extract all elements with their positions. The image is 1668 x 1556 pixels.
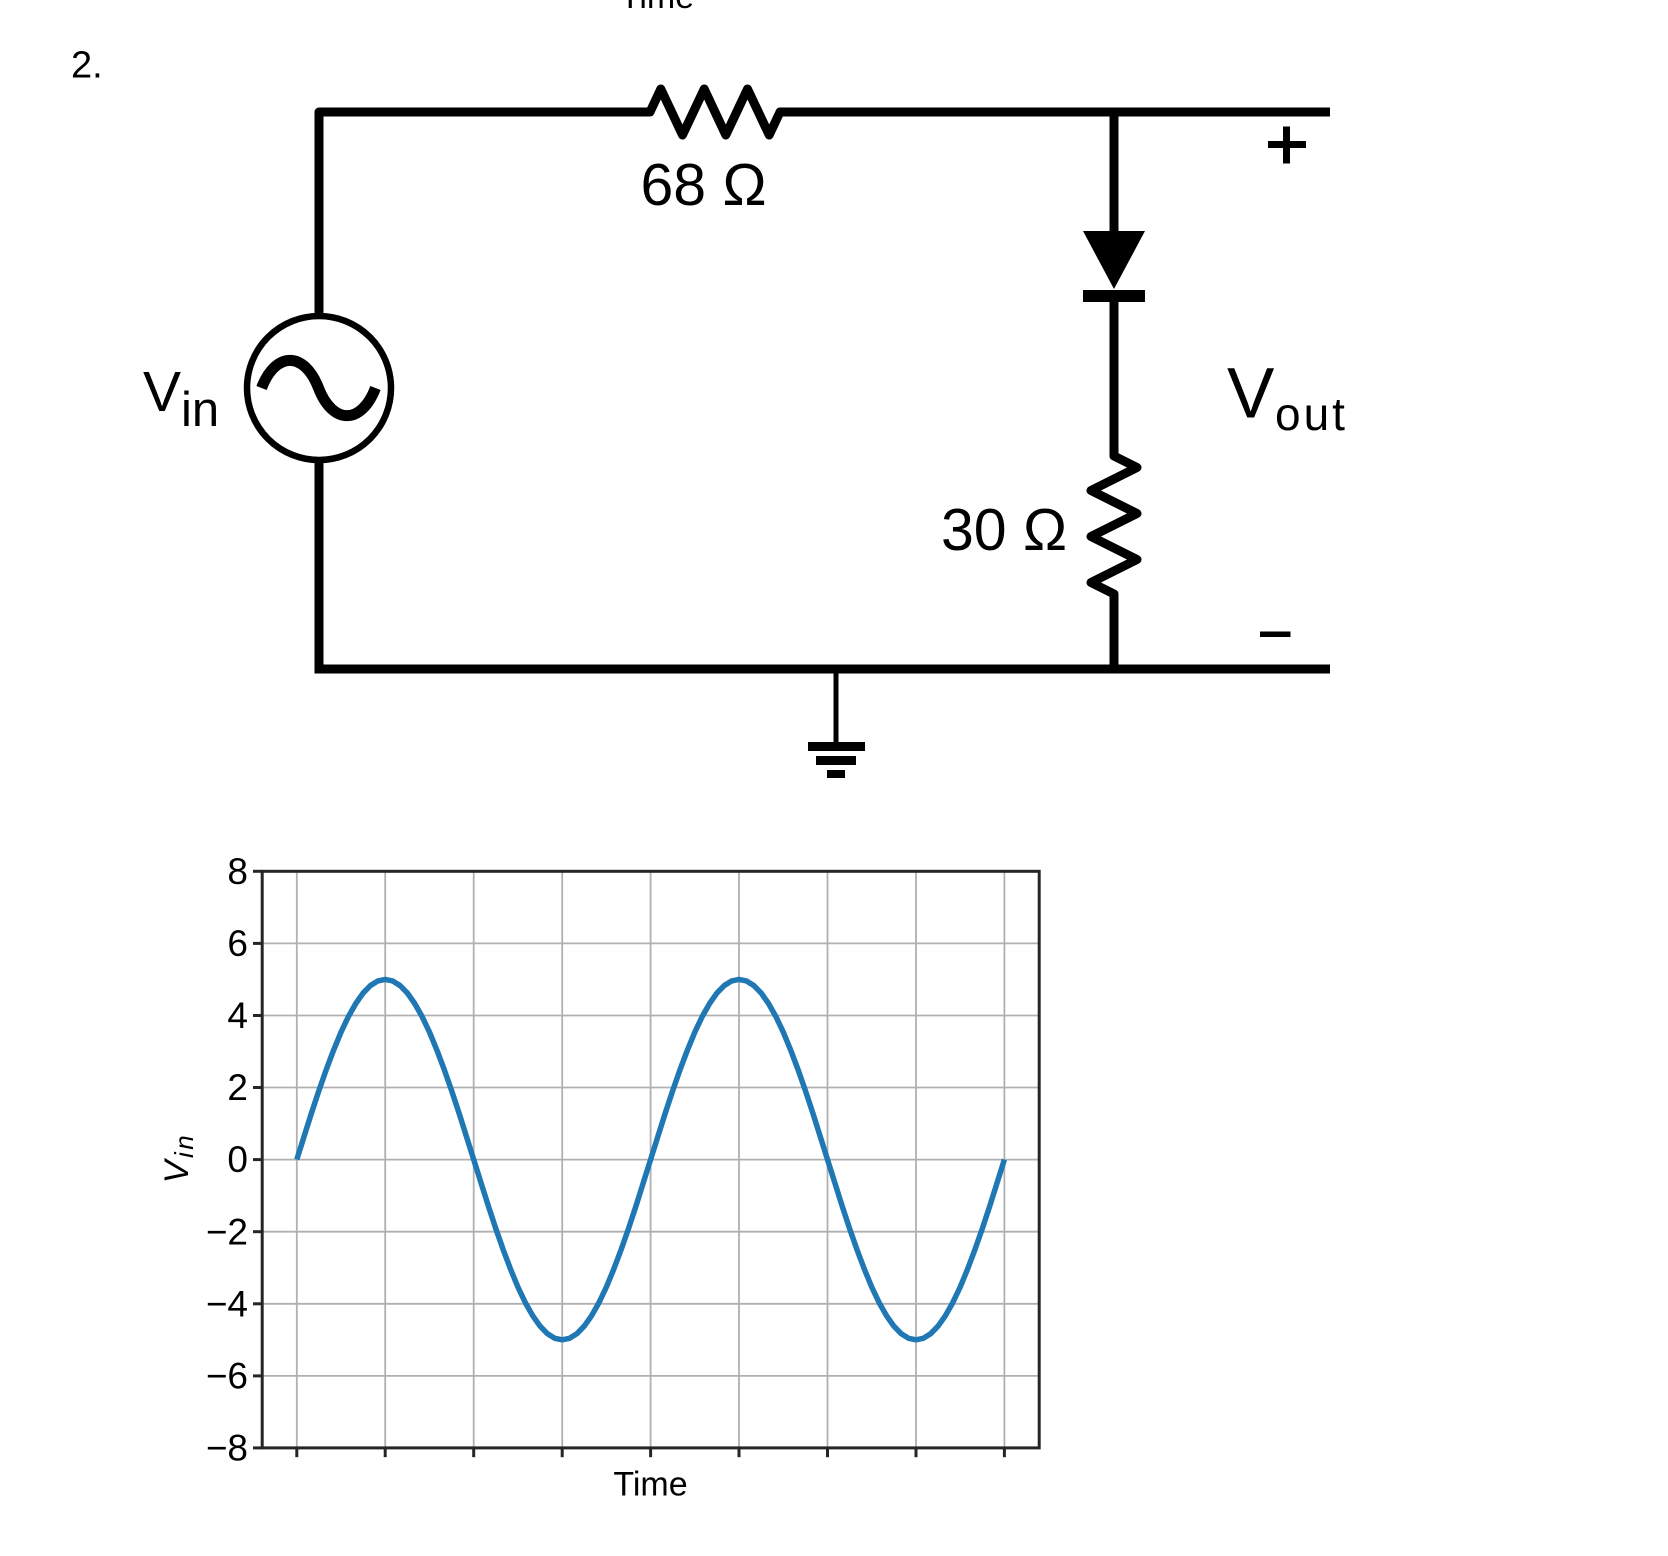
plot x-axis label Time	[613, 1466, 687, 1504]
plot y-axis label Vin italic	[158, 1133, 199, 1183]
resistor R2 30ohm zigzag	[1091, 446, 1137, 604]
resistor R2 value label 30 ohm	[941, 497, 1067, 563]
AC source VS circle	[247, 316, 391, 460]
wire: top conductor right of resistor	[780, 108, 1330, 117]
plot sine trace Vin	[297, 979, 1005, 1339]
svg-text:−8: −8	[206, 1428, 248, 1469]
source label Vin	[143, 360, 219, 437]
ground bar 1	[808, 742, 865, 751]
svg-text:2.: 2.	[71, 45, 103, 87]
svg-text:6: 6	[227, 923, 248, 964]
plot gridlines vertical	[297, 871, 1005, 1448]
clipped "Time" label of previous figure at top edge	[620, 0, 694, 16]
wire: right branch top	[1110, 112, 1119, 235]
resistor R1 68ohm zigzag	[640, 89, 790, 135]
wire: right branch bottom	[1110, 594, 1119, 669]
svg-text:2: 2	[227, 1067, 248, 1108]
resistor R1 value label 68 ohm	[640, 152, 766, 218]
plot x-axis ticks	[297, 1448, 1005, 1457]
output label Vout	[1227, 355, 1348, 441]
plot y-axis ticks	[253, 871, 262, 1448]
svg-text:Time: Time	[613, 1466, 687, 1504]
svg-text:−2: −2	[206, 1211, 248, 1252]
ground symbol stem	[834, 669, 839, 742]
svg-text:68 Ω: 68 Ω	[640, 152, 766, 218]
svg-text:V: V	[143, 360, 181, 424]
plot axes spines	[262, 871, 1039, 1448]
svg-text:out: out	[1275, 388, 1348, 440]
wire: between diode and resistor	[1110, 298, 1119, 456]
plot gridlines horizontal	[262, 871, 1039, 1448]
svg-text:Time: Time	[620, 0, 694, 16]
svg-text:−6: −6	[206, 1356, 248, 1397]
item number 2.	[71, 45, 103, 87]
AC source sine glyph	[262, 360, 376, 415]
diode D1 triangle	[1083, 231, 1145, 289]
polarity plus sign	[1268, 127, 1306, 164]
svg-text:8: 8	[227, 851, 248, 892]
svg-text:0: 0	[227, 1139, 248, 1180]
wire: left conductor below source	[319, 462, 1330, 669]
diode D1 cathode bar	[1083, 290, 1145, 302]
wire: left + top conductor loop	[319, 112, 650, 314]
svg-text:in: in	[181, 383, 219, 437]
ground bar 2	[816, 756, 856, 765]
ground bar 3	[827, 770, 845, 778]
polarity minus sign	[1260, 632, 1291, 638]
svg-text:4: 4	[227, 995, 248, 1036]
svg-text:−4: −4	[206, 1283, 248, 1324]
svg-text:V: V	[1227, 355, 1275, 434]
svg-text:30 Ω: 30 Ω	[941, 497, 1067, 563]
plot y tick labels	[206, 851, 248, 1469]
